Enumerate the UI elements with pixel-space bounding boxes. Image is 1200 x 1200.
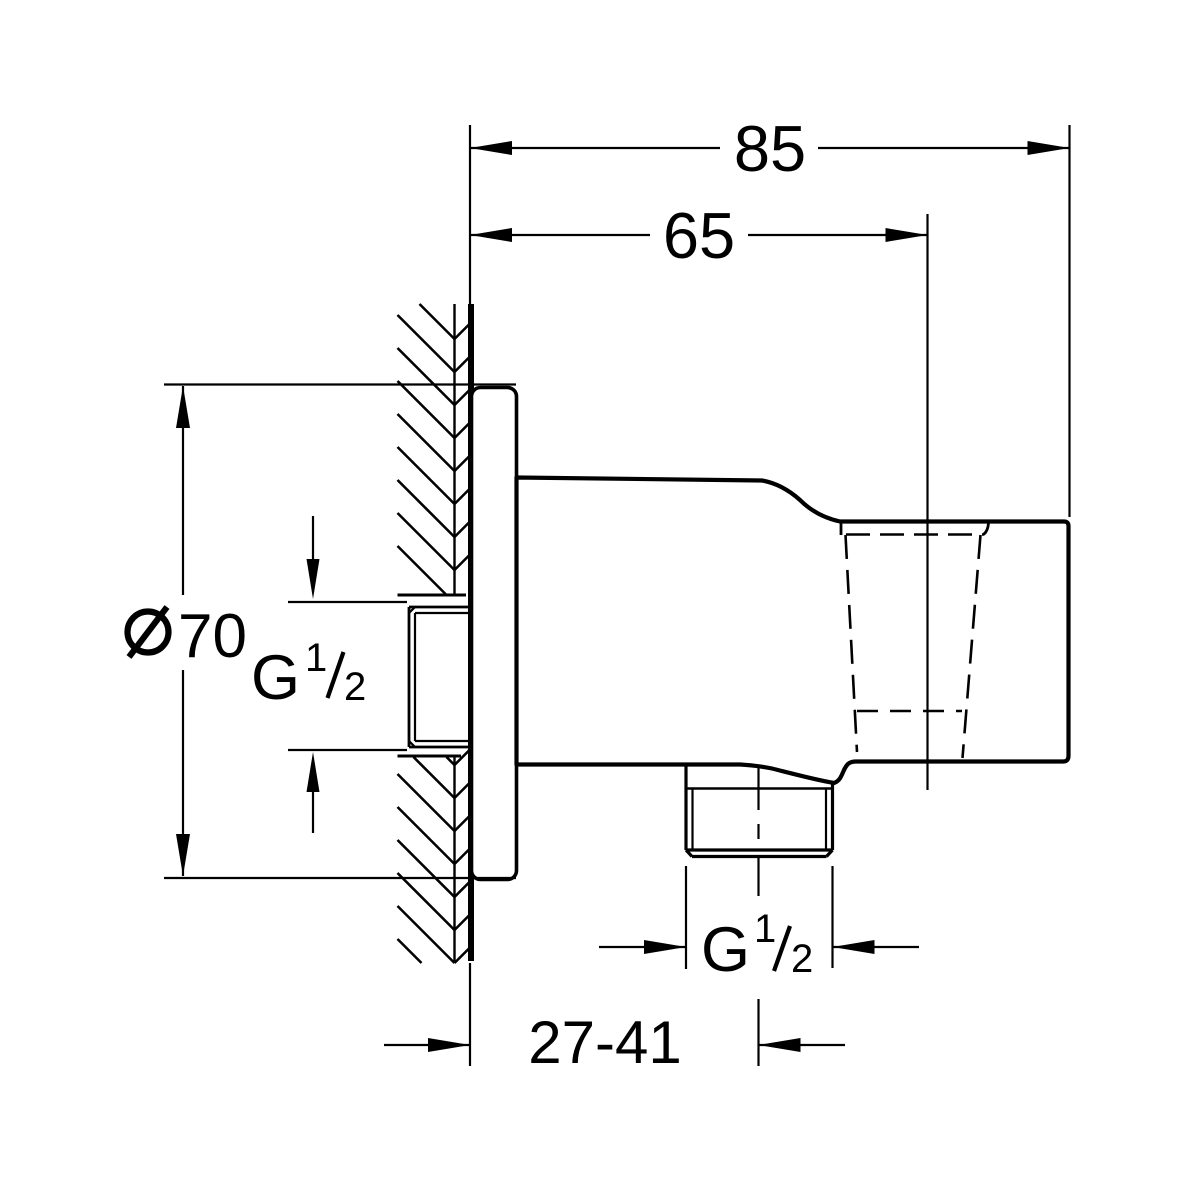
svg-text:85: 85 (734, 112, 806, 185)
svg-text:1: 1 (305, 636, 327, 680)
svg-text:27-41: 27-41 (528, 1009, 681, 1076)
svg-text:70: 70 (178, 602, 247, 671)
dimension 65 (470, 234, 928, 236)
holder cup rim (841, 523, 989, 535)
cup centerline / 65 extension (926, 214, 928, 790)
svg-text:2: 2 (344, 665, 366, 709)
dimension 85 (470, 125, 1070, 517)
outlet boss and thread G1/2 (686, 765, 833, 857)
dimension 27-41 (384, 963, 845, 1066)
inlet thread G1/2 behind wall (409, 607, 470, 747)
wall niche line upper (398, 594, 467, 597)
label G 1/2 inlet (288, 516, 407, 833)
wall face line (468, 304, 474, 961)
svg-text:G: G (701, 915, 750, 985)
wall hatch (398, 304, 471, 963)
svg-text:2: 2 (791, 937, 813, 981)
holder cup hidden outline (846, 535, 985, 759)
dimension G 1/2 outlet (599, 866, 919, 969)
wall inner line (453, 304, 455, 962)
svg-text:1: 1 (754, 907, 776, 951)
body outline (517, 478, 1069, 784)
outlet centerline (757, 765, 759, 1066)
svg-text:65: 65 (663, 199, 735, 272)
wall niche line lower (398, 755, 462, 758)
svg-text:G: G (251, 643, 300, 713)
dimension dia 70 (164, 385, 516, 879)
escutcheon flange (472, 388, 517, 880)
